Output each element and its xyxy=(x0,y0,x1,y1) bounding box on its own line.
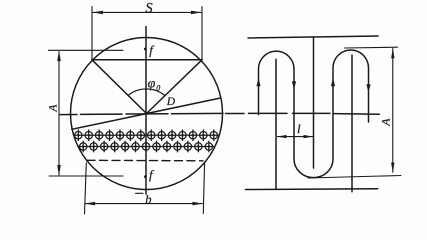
svg-text:φ: φ xyxy=(148,77,156,92)
svg-text:b: b xyxy=(145,192,151,206)
svg-text:D: D xyxy=(166,96,176,108)
svg-text:0: 0 xyxy=(156,84,160,93)
svg-text:l: l xyxy=(297,121,301,136)
svg-text:S: S xyxy=(145,0,153,16)
svg-text:A: A xyxy=(379,118,393,127)
svg-text:A: A xyxy=(48,104,60,113)
